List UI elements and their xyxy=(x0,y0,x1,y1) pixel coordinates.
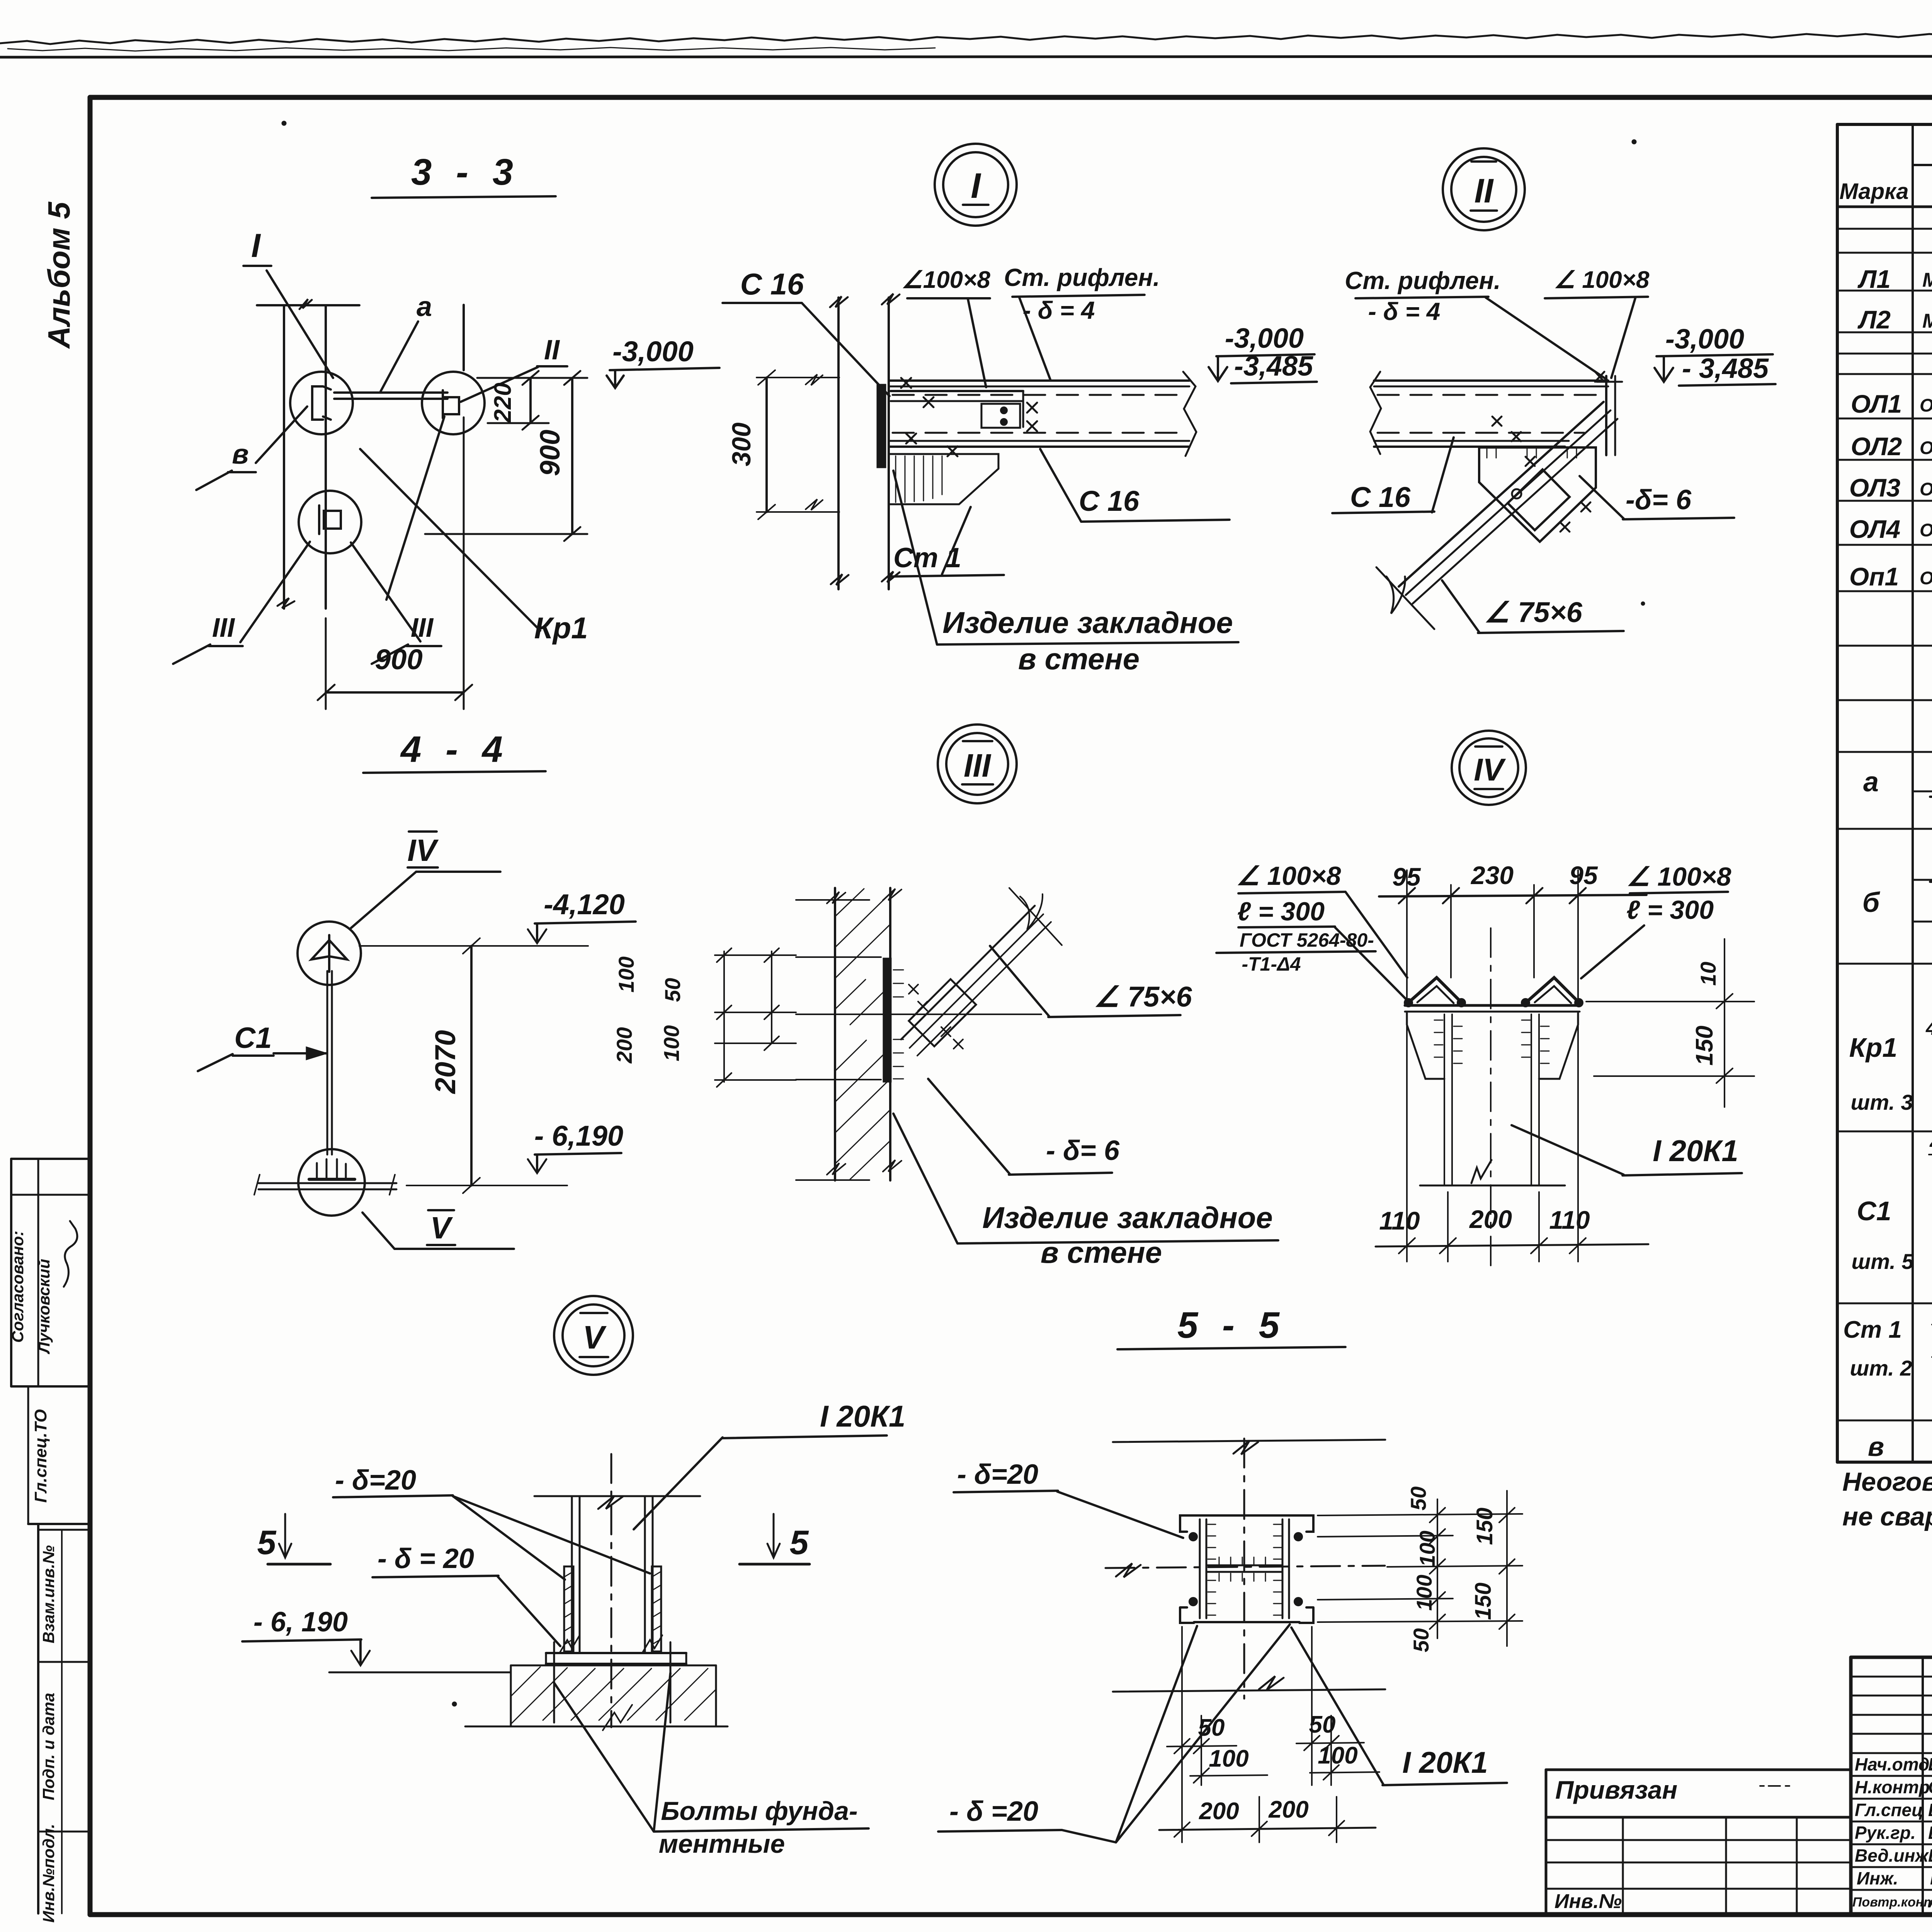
svg-text:50: 50 xyxy=(1409,1628,1433,1652)
svg-text:-3,485: -3,485 xyxy=(1234,351,1313,382)
svg-text:С 16: С 16 xyxy=(740,267,804,301)
svg-text:Марка: Марка xyxy=(1839,179,1908,204)
svg-text:Ст 1: Ст 1 xyxy=(893,543,961,573)
svg-text:150: 150 xyxy=(1472,1508,1497,1545)
svg-text:Власенко: Власенко xyxy=(1928,1800,1932,1820)
svg-text:не свариваемых деталей.: не свариваемых деталей. xyxy=(1842,1502,1932,1531)
svg-text:∠ 100×8: ∠ 100×8 xyxy=(1627,862,1731,891)
svg-text:100: 100 xyxy=(1318,1742,1357,1769)
svg-text:- 3,485: - 3,485 xyxy=(1682,353,1769,384)
svg-text:100: 100 xyxy=(614,956,638,992)
svg-text:Н.контр: Н.контр xyxy=(1855,1777,1930,1797)
svg-text:ОГЛМЛХ 60-10,30: ОГЛМЛХ 60-10,30 xyxy=(1920,520,1932,540)
svg-text:230: 230 xyxy=(1470,861,1514,889)
svg-text:I: I xyxy=(971,166,981,206)
svg-text:Инв.№: Инв.№ xyxy=(1554,1890,1622,1913)
svg-text:С 16: С 16 xyxy=(1079,485,1139,517)
svg-text:С1: С1 xyxy=(234,1022,272,1054)
svg-text:I 20К1: I 20К1 xyxy=(820,1399,905,1433)
svg-text:Ст 1: Ст 1 xyxy=(1843,1316,1902,1343)
svg-text:200: 200 xyxy=(1469,1205,1512,1233)
svg-text:ОГЛНЛХ 60-10,30: ОГЛНЛХ 60-10,30 xyxy=(1920,479,1932,499)
svg-text:4 - 4: 4 - 4 xyxy=(400,729,510,770)
svg-text:50: 50 xyxy=(1198,1714,1225,1741)
svg-text:Ст. рифлен.: Ст. рифлен. xyxy=(1004,264,1160,291)
svg-text:-3,000: -3,000 xyxy=(612,335,694,367)
svg-text:900: 900 xyxy=(375,643,422,675)
svg-text:300: 300 xyxy=(727,422,756,466)
svg-text:200: 200 xyxy=(1268,1796,1308,1823)
svg-text:150: 150 xyxy=(1471,1583,1496,1620)
svg-text:-Т1-Δ4: -Т1-Δ4 xyxy=(1242,953,1301,975)
svg-text:Инв.№подл.: Инв.№подл. xyxy=(39,1824,58,1923)
svg-text:Подп. и дата: Подп. и дата xyxy=(39,1693,58,1800)
svg-text:-3,000: -3,000 xyxy=(1225,323,1304,354)
svg-text:V: V xyxy=(430,1211,453,1245)
svg-text:110: 110 xyxy=(1379,1206,1420,1235)
svg-text:Инж.: Инж. xyxy=(1857,1868,1898,1888)
svg-text:II: II xyxy=(544,335,560,366)
svg-text:б: б xyxy=(1862,887,1881,918)
svg-text:2070: 2070 xyxy=(429,1030,461,1095)
svg-text:200: 200 xyxy=(612,1027,636,1063)
svg-text:Л1: Л1 xyxy=(1857,265,1891,293)
svg-text:Рук.гр.: Рук.гр. xyxy=(1855,1823,1916,1843)
svg-text:Повтр.контр: Повтр.контр xyxy=(1852,1895,1932,1910)
svg-text:- δ= 6: - δ= 6 xyxy=(1046,1135,1120,1166)
svg-text:- δ = 4: - δ = 4 xyxy=(1023,296,1095,324)
svg-text:Взам.инв.№: Взам.инв.№ xyxy=(39,1545,58,1643)
svg-text:- δ=20: - δ=20 xyxy=(335,1465,416,1496)
svg-text:ОГЛМЛХ 45-10,30: ОГЛМЛХ 45-10,30 xyxy=(1920,395,1932,415)
svg-text:в: в xyxy=(232,439,249,470)
svg-text:IV: IV xyxy=(1474,752,1506,787)
svg-text:шт. 2: шт. 2 xyxy=(1850,1356,1912,1380)
svg-text:Вед.инж: Вед.инж xyxy=(1855,1845,1929,1866)
svg-text:150: 150 xyxy=(1691,1026,1718,1065)
svg-text:- δ = 4: - δ = 4 xyxy=(1368,298,1440,325)
svg-text:- δ =20: - δ =20 xyxy=(949,1796,1038,1827)
svg-text:220: 220 xyxy=(490,383,516,423)
svg-text:II: II xyxy=(1475,172,1494,210)
svg-text:в стене: в стене xyxy=(1041,1235,1162,1269)
svg-text:в стене: в стене xyxy=(1018,642,1139,676)
svg-text:ОЛ4: ОЛ4 xyxy=(1849,515,1901,543)
svg-text:200: 200 xyxy=(1199,1798,1239,1825)
svg-text:95: 95 xyxy=(1569,861,1598,889)
svg-text:III: III xyxy=(411,612,434,643)
svg-text:ОГЛМХЭБ-10,9: ОГЛМХЭБ-10,9 xyxy=(1920,568,1932,588)
svg-text:ℓ = 300: ℓ = 300 xyxy=(1237,897,1325,926)
svg-text:а: а xyxy=(417,291,432,322)
svg-text:ОЛ1: ОЛ1 xyxy=(1851,389,1902,418)
svg-text:I 20К1: I 20К1 xyxy=(1653,1134,1738,1168)
svg-text:Нач.отд.: Нач.отд. xyxy=(1855,1754,1932,1774)
svg-text:900: 900 xyxy=(535,430,566,476)
svg-text:ℓ = 300: ℓ = 300 xyxy=(1626,895,1714,925)
svg-text:Шейко: Шейко xyxy=(1928,1754,1932,1774)
svg-text:Изделие закладное: Изделие закладное xyxy=(942,605,1233,639)
svg-text:ОЛ3: ОЛ3 xyxy=(1849,473,1901,502)
svg-text:I: I xyxy=(251,227,261,264)
svg-text:Неоговоренные швы принимать: Неоговоренные швы принимать по наименьше… xyxy=(1842,1467,1932,1497)
svg-text:50: 50 xyxy=(660,978,685,1002)
svg-text:Сокольская: Сокольская xyxy=(1928,1777,1932,1797)
svg-text:Ст. рифлен.: Ст. рифлен. xyxy=(1345,267,1501,294)
svg-text:10: 10 xyxy=(1696,962,1720,986)
svg-text:100: 100 xyxy=(1415,1531,1439,1566)
svg-text:- 6, 190: - 6, 190 xyxy=(253,1607,348,1638)
svg-text:Шмандий: Шмандий xyxy=(1928,1845,1932,1866)
svg-text:∠ 75×6: ∠ 75×6 xyxy=(1094,981,1192,1013)
svg-text:Кр1: Кр1 xyxy=(534,611,588,645)
svg-text:∠ 100×8: ∠ 100×8 xyxy=(1554,267,1650,293)
svg-text:5: 5 xyxy=(257,1523,277,1561)
svg-text:Боровик: Боровик xyxy=(1928,1823,1932,1843)
svg-text:Оп1: Оп1 xyxy=(1849,562,1899,591)
svg-text:3 - 3: 3 - 3 xyxy=(411,151,520,193)
svg-text:4: 4 xyxy=(1929,1132,1932,1154)
svg-text:∠ 100×8: ∠ 100×8 xyxy=(1236,861,1341,891)
svg-text:шт. 5: шт. 5 xyxy=(1851,1249,1914,1274)
svg-text:Болты фунда-: Болты фунда- xyxy=(661,1796,857,1826)
svg-text:ОГЛМЛХ 45-10.30: ОГЛМЛХ 45-10.30 xyxy=(1920,437,1932,458)
svg-text:Лучковский: Лучковский xyxy=(35,1259,53,1354)
svg-text:100: 100 xyxy=(659,1025,684,1061)
svg-text:а: а xyxy=(1863,767,1879,798)
svg-text:∠ 75×6: ∠ 75×6 xyxy=(1484,596,1582,628)
svg-text:-3,000: -3,000 xyxy=(1665,324,1744,355)
svg-text:Согласовано:: Согласовано: xyxy=(9,1231,27,1343)
svg-text:Кр1: Кр1 xyxy=(1849,1032,1898,1063)
svg-text:-4,120: -4,120 xyxy=(544,888,625,920)
svg-text:МЛХШ60-30.8: МЛХШ60-30.8 xyxy=(1922,310,1932,332)
svg-text:ментные: ментные xyxy=(659,1829,785,1859)
svg-text:Изделие закладное: Изделие закладное xyxy=(982,1201,1273,1235)
svg-text:Гл.спец: Гл.спец xyxy=(1855,1800,1923,1820)
svg-text:50: 50 xyxy=(1309,1711,1336,1738)
svg-text:в: в xyxy=(1868,1432,1884,1462)
svg-text:МЛХШ45-30,8: МЛХШ45-30,8 xyxy=(1922,269,1932,291)
svg-text:5: 5 xyxy=(790,1523,809,1561)
svg-text:С 16: С 16 xyxy=(1350,481,1411,513)
svg-text:III: III xyxy=(212,612,235,643)
svg-text:100: 100 xyxy=(1209,1745,1248,1772)
svg-text:- δ=20: - δ=20 xyxy=(957,1459,1038,1490)
svg-text:4: 4 xyxy=(1925,1017,1932,1039)
svg-text:Пугачев: Пугачев xyxy=(1930,1868,1932,1888)
svg-text:IV: IV xyxy=(407,833,439,867)
svg-text:Абрамова: Абрамова xyxy=(1928,1891,1932,1911)
svg-text:I 20К1: I 20К1 xyxy=(1402,1745,1488,1779)
svg-text:- 6,190: - 6,190 xyxy=(534,1120,623,1152)
svg-text:5 - 5: 5 - 5 xyxy=(1177,1304,1286,1346)
svg-text:шт. 3: шт. 3 xyxy=(1850,1090,1913,1114)
svg-text:V: V xyxy=(583,1319,607,1355)
svg-text:Л2: Л2 xyxy=(1857,305,1891,334)
svg-text:III: III xyxy=(964,747,992,784)
svg-text:110: 110 xyxy=(1549,1206,1590,1234)
svg-text:50: 50 xyxy=(1406,1486,1430,1510)
svg-text:- δ = 20: - δ = 20 xyxy=(378,1543,474,1574)
svg-text:Гл.спец.ТО: Гл.спец.ТО xyxy=(31,1409,50,1503)
svg-text:С1: С1 xyxy=(1857,1196,1891,1226)
svg-text:ОЛ2: ОЛ2 xyxy=(1851,432,1902,461)
svg-text:Альбом 5: Альбом 5 xyxy=(42,201,76,349)
svg-text:100: 100 xyxy=(1412,1575,1436,1611)
svg-text:∠100×8: ∠100×8 xyxy=(901,267,990,293)
svg-text:Привязан: Привязан xyxy=(1555,1776,1677,1804)
svg-text:-δ= 6: -δ= 6 xyxy=(1626,485,1692,515)
